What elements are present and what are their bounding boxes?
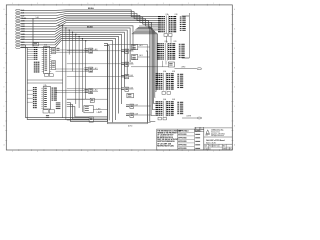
gate U10A bbox=[85, 48, 88, 51]
svg-text:E: E bbox=[4, 67, 5, 69]
wire A5 to U1 bbox=[21, 19, 159, 26]
U5 body bbox=[44, 46, 50, 73]
U5 left pin bbox=[42, 53, 44, 55]
U7 body bbox=[43, 87, 50, 110]
wire U1 to U2 vertical bbox=[166, 36, 168, 42]
gate U10C bbox=[85, 88, 88, 91]
bus wire V4-0 bbox=[139, 26, 155, 122]
comparator U8A small block left of U2 bbox=[132, 45, 138, 50]
wire MA7 branch drop bbox=[85, 41, 87, 100]
output port connector OUT2 bbox=[197, 117, 202, 119]
gate U11D bbox=[121, 87, 124, 90]
gate U10B bbox=[85, 67, 88, 70]
U2 octal buffer pair body outline bbox=[164, 43, 166, 61]
extra bus verticals center bbox=[104, 44, 108, 122]
U5 right pin bbox=[50, 67, 52, 69]
U5 right pin bbox=[50, 71, 52, 73]
svg-text:SIZE: SIZE bbox=[204, 145, 207, 147]
table divider 2 bbox=[193, 129, 195, 150]
bus wire V4-1 bbox=[138, 27, 156, 115]
svg-text:BE REPRODUCED IN: BE REPRODUCED IN bbox=[157, 137, 173, 139]
wire U8A output bbox=[138, 46, 150, 48]
svg-text:C: C bbox=[234, 106, 235, 108]
wire long input to U2A at y66.8 bbox=[131, 66, 168, 68]
wire crossing to E2 column bbox=[67, 50, 121, 52]
U5 top small box bbox=[33, 43, 39, 46]
U5 pin labels lower bbox=[34, 62, 36, 63]
wire MA3 branch drop bbox=[72, 32, 74, 71]
connector P1-12 bbox=[15, 39, 20, 41]
svg-text:U1B: U1B bbox=[175, 14, 178, 16]
wire MA5 branch drop bbox=[78, 36, 80, 108]
connector P1-7 bbox=[15, 25, 20, 27]
wire MA3 bus line bbox=[21, 32, 125, 87]
svg-text:G: G bbox=[234, 29, 235, 31]
gate U13A bbox=[90, 98, 94, 102]
gate U12 small top box bbox=[127, 93, 134, 98]
junction dot MA3 bbox=[72, 32, 73, 33]
U5 pin labels upper bbox=[34, 47, 36, 48]
wire MA6 branch drop bbox=[81, 39, 83, 112]
wire U8B output bbox=[138, 56, 150, 58]
nested return wires below gates bbox=[67, 103, 108, 122]
junction dot MA7 bbox=[85, 40, 86, 41]
svg-text:C: C bbox=[4, 106, 5, 108]
junction dot MA6 bbox=[82, 38, 83, 39]
bus wire V4-6 bbox=[132, 34, 158, 86]
U5 right pin bbox=[50, 49, 52, 51]
notes and approvals table box bbox=[157, 129, 204, 150]
wire MA4 branch drop bbox=[75, 34, 77, 104]
connector P1-15 bbox=[15, 47, 20, 49]
U7 left pin bbox=[41, 87, 43, 89]
wire U5 outputs to gates bbox=[56, 49, 85, 51]
svg-text:U4B: U4B bbox=[172, 99, 175, 101]
U7 left pin bbox=[41, 105, 43, 107]
bus wire V4-3 bbox=[135, 30, 155, 104]
U5 right pin bbox=[50, 55, 52, 57]
U5 right pin bbox=[50, 61, 52, 63]
title block row divider 1 bbox=[204, 136, 233, 138]
svg-text:OF LSI CORP. USE: OF LSI CORP. USE bbox=[157, 143, 171, 145]
svg-text:D: D bbox=[234, 87, 235, 89]
comparator U8B small block left of U2 bbox=[132, 55, 138, 60]
connector P1-6 bbox=[15, 23, 20, 25]
gate U12A bbox=[126, 104, 129, 107]
wire MA5 bus line bbox=[21, 36, 119, 113]
wire MA7 bus line bbox=[21, 41, 113, 123]
svg-text:U2B: U2B bbox=[174, 41, 177, 43]
title block row divider 2 bbox=[204, 143, 233, 145]
U5 left pin bbox=[42, 61, 44, 63]
wire U7 left vertical feed bbox=[26, 48, 90, 118]
U5 right pin bbox=[50, 47, 52, 49]
junction dot MA0 bbox=[62, 25, 63, 26]
U7 left pin bbox=[41, 99, 43, 101]
wire U13A output bbox=[94, 98, 107, 100]
svg-text:HEREIN IS THE PROPERTY: HEREIN IS THE PROPERTY bbox=[157, 132, 177, 134]
U7 right pin rows bbox=[52, 87, 54, 90]
approval row line bbox=[178, 131, 195, 133]
U5 right pin bbox=[50, 63, 52, 65]
U5 right pin bbox=[50, 65, 52, 67]
wire U12A output extension bbox=[139, 105, 151, 107]
gate U11C bbox=[121, 74, 124, 77]
U1 octal buffer pair body outline bbox=[165, 16, 167, 34]
U1 octal buffer pair right stub labels bbox=[180, 16, 182, 19]
wire bottom bus segment bbox=[108, 121, 151, 123]
connector P1-4 bbox=[15, 17, 20, 19]
U5 internal marks bbox=[45, 46, 48, 49]
wire MA2 bus line bbox=[21, 30, 128, 75]
wire A6 to U1 bbox=[21, 21, 159, 28]
connector P1-13 bbox=[15, 41, 20, 43]
U5 left pin bbox=[42, 55, 44, 57]
wire A3 to U1 bbox=[21, 15, 159, 22]
mini table above title block bbox=[195, 127, 204, 132]
connector P1-10 bbox=[15, 33, 20, 35]
approval row line bbox=[178, 145, 195, 147]
U7 input wire bbox=[27, 89, 33, 91]
wire to output port OUT1 bbox=[175, 68, 197, 70]
U7 left pin bbox=[41, 89, 43, 91]
U7 right lower labels bbox=[56, 102, 61, 105]
U7 input wire bbox=[27, 97, 33, 99]
U3 octal buffer pair right stub labels bbox=[177, 73, 179, 76]
svg-text:BUSB: BUSB bbox=[87, 27, 93, 29]
svg-text:B: B bbox=[195, 130, 196, 132]
connector P1-14 bbox=[15, 44, 20, 46]
U1 decoupling boxes below bbox=[164, 34, 167, 37]
U6 pin labels bbox=[57, 47, 60, 50]
connector P1-8 bbox=[15, 28, 20, 30]
U7 left pin bbox=[41, 101, 43, 103]
wire U4 to output port OUT2 bbox=[182, 117, 197, 119]
wire right loop E2 bbox=[146, 51, 148, 123]
wire MA0 branch drop bbox=[62, 26, 64, 118]
table divider 1 bbox=[177, 129, 179, 150]
approval row line bbox=[178, 142, 195, 144]
group enclosure box around decoder column bbox=[107, 45, 147, 124]
wire AD2 vertical feed bbox=[21, 48, 28, 50]
svg-text:H: H bbox=[4, 9, 5, 11]
gate U13B multi-input bbox=[84, 106, 93, 113]
U6 small block b bbox=[52, 61, 56, 70]
wire U13 left inputs bbox=[67, 98, 90, 100]
title block box bbox=[204, 128, 233, 150]
wire MA2 branch drop bbox=[68, 30, 70, 54]
U5 left pin bbox=[42, 57, 44, 59]
U5 left pin bbox=[42, 49, 44, 51]
U4 octal buffer pair right stub labels bbox=[177, 101, 179, 104]
U5 left pin bbox=[42, 63, 44, 65]
gate U11A bbox=[121, 49, 124, 52]
wire A4 to U1 bbox=[21, 17, 159, 24]
svg-text:1/1: 1/1 bbox=[209, 148, 211, 150]
svg-text:B: B bbox=[234, 125, 235, 127]
U5 left pin bbox=[42, 65, 44, 67]
svg-text:D: D bbox=[4, 87, 5, 89]
wire MA1 bus line bbox=[21, 28, 130, 62]
gate U11B bbox=[121, 62, 124, 65]
U5 bottom decoupling boxes bbox=[45, 74, 49, 77]
U7 internal marks bbox=[44, 87, 47, 90]
U5 right pin bbox=[50, 53, 52, 55]
U7 left pin bbox=[41, 91, 43, 93]
approval row line bbox=[178, 138, 195, 140]
drawing frame border bbox=[6, 5, 232, 150]
U7 left pin bbox=[41, 103, 43, 105]
U6 small block a bbox=[52, 48, 56, 54]
U7 pin labels bbox=[33, 87, 35, 88]
wire A1 to U1 bbox=[21, 12, 159, 19]
gate U12B bbox=[126, 113, 129, 116]
wire MA0 bus line bbox=[58, 26, 133, 49]
wire U13C output bbox=[93, 119, 107, 121]
svg-text:U3B: U3B bbox=[172, 71, 175, 73]
U5 left pin bbox=[42, 51, 44, 53]
U4 octal buffer pair body outline bbox=[163, 101, 165, 117]
U7 left pin bbox=[41, 93, 43, 95]
connector P1-5 bbox=[15, 20, 20, 22]
bus wire V4-5 bbox=[133, 33, 156, 92]
buffer U2A below U2 bbox=[168, 62, 174, 67]
connector P1-9 bbox=[15, 31, 20, 33]
wire U2 bottom to U2A verticals bbox=[162, 61, 164, 67]
output port connector OUT1 bbox=[197, 68, 202, 70]
svg-text:DWG NO: DWG NO bbox=[213, 145, 218, 147]
U7 input wire bbox=[27, 101, 33, 103]
wire MA6 bus line bbox=[21, 39, 116, 120]
wires U5 to bus V1 bbox=[27, 47, 34, 49]
svg-text:H: H bbox=[234, 9, 235, 11]
svg-text:G: G bbox=[3, 29, 4, 31]
frame zone tick marks top edge bbox=[18, 4, 20, 6]
wire cluster gap horizontals bbox=[27, 79, 62, 81]
U2 octal buffer pair right stub labels bbox=[179, 43, 181, 46]
svg-text:RxLOGIC uPCIO Board: RxLOGIC uPCIO Board bbox=[206, 140, 224, 142]
company logo mark bbox=[206, 130, 209, 134]
U5 right pin bbox=[50, 57, 52, 59]
svg-text:B: B bbox=[4, 125, 5, 127]
approval row line bbox=[178, 135, 195, 137]
svg-text:BUSA: BUSA bbox=[88, 7, 94, 10]
U5 left pin bbox=[42, 71, 44, 73]
U5 left pin bbox=[42, 67, 44, 69]
junction dot MA4 bbox=[75, 34, 76, 35]
wire A0 to U1 bbox=[21, 10, 159, 17]
bus wire V4-2 bbox=[137, 29, 156, 110]
wire U13B output bbox=[93, 108, 107, 110]
U5 right pin bbox=[50, 59, 52, 61]
frame zone tick marks side edges bbox=[5, 14, 7, 16]
svg-text:WRITTEN PERMISSION: WRITTEN PERMISSION bbox=[157, 141, 175, 143]
bus wire V4-4 bbox=[134, 31, 155, 97]
svg-text:SHEET 10 OF 10: SHEET 10 OF 10 bbox=[223, 148, 233, 150]
wire A2 to U1 bbox=[21, 14, 159, 21]
title block lower cells bbox=[208, 144, 210, 150]
svg-text:E: E bbox=[234, 67, 235, 69]
svg-text:REV: REV bbox=[223, 145, 226, 147]
connector P1-1 bbox=[15, 9, 20, 11]
junction dot MA5 bbox=[79, 36, 80, 37]
wire MA1 branch drop bbox=[65, 28, 67, 120]
U7 bottom decoupling boxes bbox=[43, 110, 48, 113]
connector P1-3 bbox=[15, 15, 20, 17]
U5 right pin bbox=[50, 69, 52, 71]
U4 decoupling boxes below bbox=[158, 117, 161, 120]
U3 octal buffer pair body outline bbox=[163, 73, 165, 91]
wire RD-A0 branch down bbox=[32, 18, 34, 46]
U7 left pin bbox=[41, 97, 43, 99]
wire MA4 bus line bbox=[21, 34, 122, 104]
U7 left pin bbox=[41, 95, 43, 97]
gate U13C bbox=[89, 117, 93, 122]
wire A7 to U1 bbox=[21, 23, 159, 30]
connector P1-2 bbox=[15, 12, 20, 14]
wire AD1 vertical feed bbox=[21, 45, 26, 48]
U5 left pin bbox=[42, 69, 44, 71]
U5 left pin bbox=[42, 59, 44, 61]
junction dot MA2 bbox=[69, 30, 70, 31]
U5 left pin bbox=[42, 47, 44, 49]
U7 input wire bbox=[27, 93, 33, 95]
connector P1-11 bbox=[15, 36, 20, 38]
wire right vertical x189 bbox=[188, 13, 190, 58]
U7 left pin bbox=[41, 107, 43, 109]
U5 right pin bbox=[50, 51, 52, 53]
title block cell divider bbox=[204, 146, 233, 148]
U3 decoupling boxes below bbox=[162, 92, 165, 95]
junction dot MA1 bbox=[65, 27, 66, 28]
